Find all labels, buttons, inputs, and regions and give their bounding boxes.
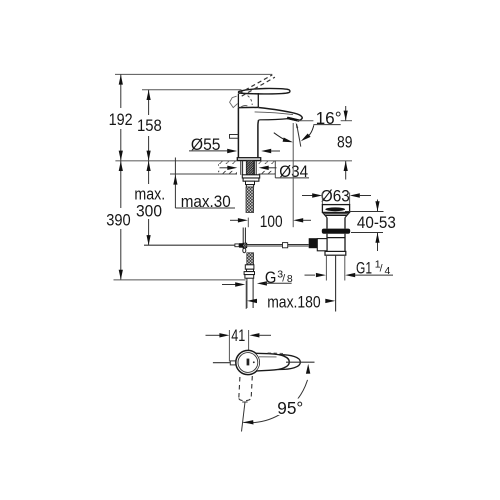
95 deg arc: [243, 380, 307, 423]
knob left tab: [230, 361, 236, 365]
dimension 192 arrows: [119, 75, 123, 161]
braided supply hose lower: [247, 253, 254, 267]
lever raised (dashed): [239, 75, 275, 96]
countertop hatched slab right part: [259, 161, 276, 178]
G1 1/4 extension lines: [325, 255, 327, 280]
spout second contour: [255, 112, 293, 115]
dimension 390 line: [120, 161, 122, 280]
countertop hatched slab left part: [218, 161, 237, 173]
faucet base: [237, 158, 260, 161]
svg-text:41: 41: [231, 326, 245, 345]
Ø63 extension lines: [321, 193, 323, 206]
dimension max.300 arrows: [147, 161, 151, 245]
braided supply hose upper: [246, 187, 254, 213]
svg-text:8: 8: [287, 273, 293, 285]
svg-text:40-53: 40-53: [357, 213, 396, 232]
drain neck: [327, 218, 345, 229]
hidden spout edge (dashed): [268, 352, 283, 355]
horizontal actuating rod: [144, 244, 235, 246]
dimension max.30 callout: [175, 158, 235, 209]
dimension 390 arrows: [119, 161, 123, 280]
dimension 192 line: [120, 74, 122, 160]
dimension Ø55 leader and arrows: [189, 150, 228, 152]
hose crimp step 2: [246, 185, 253, 187]
drain flange taper: [322, 212, 349, 217]
dimension Ø63: [302, 195, 312, 197]
svg-text:G1: G1: [356, 258, 372, 277]
lever inner contour: [259, 356, 277, 358]
center dot: [253, 361, 255, 363]
pop-up rod end cap: [243, 248, 246, 252]
dimension 40-53: [345, 211, 384, 213]
rod connector cylinder: [317, 239, 327, 251]
cartridge housing: [238, 93, 258, 108]
pop-up rod knob (back of body): [230, 135, 239, 139]
knob circle (top view): [236, 350, 260, 374]
mounting washer: [242, 175, 259, 178]
aerator (dark): [287, 117, 300, 122]
drain plug top (dark lens): [325, 207, 345, 211]
dimension 41 extension lines: [228, 330, 230, 362]
svg-text:158: 158: [137, 116, 162, 135]
dimension G1 1/4: [305, 274, 316, 276]
hose end step: [247, 269, 254, 271]
drain flange: [322, 205, 349, 213]
swivel lever position (dashed): [239, 376, 253, 401]
extension line (158 reference, lever at rest): [142, 89, 242, 91]
lever handle at rest: [238, 88, 289, 93]
rod knob on drain (dark): [309, 238, 318, 248]
svg-text:100: 100: [260, 212, 283, 231]
knob inner ring: [238, 353, 258, 373]
connector hex: [245, 275, 254, 279]
counter underside line (max.30 reference): [170, 173, 237, 175]
hose end collar: [245, 265, 254, 269]
cartridge slot mark: [247, 359, 250, 366]
supply pipe: [247, 278, 253, 308]
faucet body top edge: [238, 106, 258, 108]
lever centerline right: [286, 361, 315, 363]
rod clamp screw square: [243, 243, 247, 248]
svg-text:max.180: max.180: [267, 292, 321, 311]
faucet body column: [238, 108, 258, 158]
extension line top (192 reference, tip of raised lever): [115, 73, 272, 75]
dimension G3/8 underline: [265, 282, 292, 284]
dimension Ø34 underline: [275, 177, 309, 179]
rod sleeve: [283, 243, 288, 248]
cartridge dome (dashed): [248, 96, 253, 105]
mounting nut: [243, 178, 259, 181]
dimension max.300 line: [148, 161, 150, 245]
95 deg text backing: [276, 399, 308, 416]
svg-text:max.30: max.30: [181, 192, 231, 211]
lever (top view): [256, 353, 289, 371]
svg-text:/: /: [380, 263, 383, 275]
bottom reference line (390): [114, 279, 246, 281]
dimension Ø34 arrows and leader: [220, 167, 277, 169]
drain body bottom cap: [325, 251, 346, 255]
countertop reference line: [115, 160, 352, 162]
spout outlet level reference line: [297, 120, 313, 122]
pop-up rod vertical: [243, 228, 245, 249]
svg-text:192: 192: [109, 110, 133, 129]
swivel centerline below: [242, 402, 246, 432]
connector washer: [244, 272, 254, 275]
hose crimp step 1: [246, 181, 255, 184]
lever droop tip (left): [230, 96, 238, 107]
dimension G3/8 arrows: [222, 284, 236, 286]
faucet shank studs below base: [241, 160, 256, 174]
svg-text:95°: 95°: [277, 398, 303, 418]
spout tip cap (top view, behind lever): [279, 355, 300, 370]
dimension 89: [345, 106, 347, 180]
svg-text:Ø63: Ø63: [321, 187, 350, 206]
16 deg left curved arrow: [274, 133, 286, 140]
top view centerline left: [213, 362, 236, 364]
dimension 41 arrows: [206, 334, 220, 336]
rod clamp block (dark): [239, 243, 243, 248]
drain seal ring (dark): [322, 229, 350, 234]
cartridge base curve: [241, 106, 248, 108]
svg-text:390: 390: [106, 210, 131, 229]
dimension 158 line: [148, 90, 150, 161]
svg-text:/: /: [282, 272, 285, 284]
dimension 158 arrows: [147, 90, 151, 161]
svg-text:300: 300: [136, 201, 162, 220]
svg-text:16°: 16°: [316, 108, 342, 128]
swivel tip T mark: [242, 401, 247, 403]
dimension max.30 arrow: [173, 175, 177, 185]
rod collar: [235, 244, 239, 247]
dimension 100: [247, 218, 249, 228]
drain body: [327, 234, 345, 252]
water stream drop: [296, 122, 299, 128]
spout underside: [258, 119, 288, 121]
16 deg right curved arrow: [309, 125, 314, 136]
svg-text:G: G: [265, 268, 277, 287]
svg-text:4: 4: [385, 265, 391, 277]
water stream line (16 deg): [297, 124, 301, 147]
dimension max.180: [245, 281, 247, 309]
spout outline: [258, 108, 302, 121]
svg-text:89: 89: [337, 133, 353, 152]
spout tip vertical reference line: [292, 123, 294, 227]
16 deg underline: [313, 124, 340, 126]
drain tailpipe centerline: [335, 255, 337, 311]
95 deg arc arrowheads: [306, 364, 310, 374]
threaded mounting shank: [246, 160, 253, 174]
